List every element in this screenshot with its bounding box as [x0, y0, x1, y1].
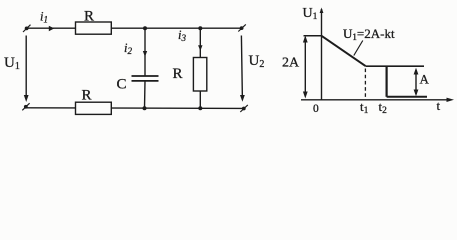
dimension arrow 2A [303, 36, 308, 99]
waveform zero level after t2 [387, 96, 427, 98]
node junction top C [143, 26, 147, 30]
svg-text:C: C [117, 77, 127, 93]
svg-text:t2: t2 [379, 99, 388, 116]
node junction bottom R [198, 106, 202, 110]
voltage arrow U2 [240, 36, 245, 102]
wire C branch upper [144, 28, 146, 75]
current arrow i3 [198, 45, 202, 51]
resistor R shunt [193, 58, 206, 92]
terminal top-left [23, 25, 31, 32]
svg-text:2A: 2A [282, 56, 300, 71]
node junction bottom C [143, 106, 147, 110]
wire bottom rail [26, 107, 244, 110]
waveform flat at level A [365, 65, 424, 67]
current arrow i1 [49, 26, 55, 31]
graph x-axis [301, 98, 454, 102]
extension line at 2A level [304, 35, 322, 37]
svg-text:t: t [437, 98, 441, 113]
waveform drop at t2 [386, 66, 388, 97]
resistor R bottom series [76, 102, 112, 114]
dimension arrow A [414, 68, 419, 97]
wire C branch lower [144, 81, 147, 109]
voltage arrow U1 [24, 36, 29, 103]
annotation leader line [354, 41, 363, 56]
svg-text:i2: i2 [124, 41, 132, 56]
resistor R top series [76, 22, 112, 34]
svg-text:U1=2A-kt: U1=2A-kt [343, 26, 395, 42]
capacitor C [132, 76, 159, 81]
svg-text:U1: U1 [4, 55, 20, 72]
terminal bottom-left [22, 103, 29, 110]
wire top rail [27, 27, 242, 29]
svg-text:0: 0 [313, 103, 319, 115]
svg-text:U2: U2 [249, 53, 265, 70]
svg-text:t1: t1 [360, 99, 369, 116]
wire R branch lower [199, 91, 201, 108]
current arrow i2 [143, 51, 147, 57]
terminal bottom-right [240, 105, 248, 112]
svg-text:R: R [82, 88, 92, 104]
svg-text:i3: i3 [178, 28, 186, 43]
svg-text:R: R [84, 9, 94, 25]
wire R branch upper [199, 28, 201, 57]
node junction top R [198, 26, 202, 30]
graph y-axis [320, 8, 324, 101]
svg-text:A: A [420, 72, 430, 87]
svg-text:R: R [173, 66, 183, 82]
svg-text:i1: i1 [40, 10, 48, 25]
terminal top-right [238, 24, 246, 31]
dashed line at t1 [364, 69, 366, 98]
svg-text:U1: U1 [303, 6, 318, 22]
waveform ramp [322, 36, 366, 66]
